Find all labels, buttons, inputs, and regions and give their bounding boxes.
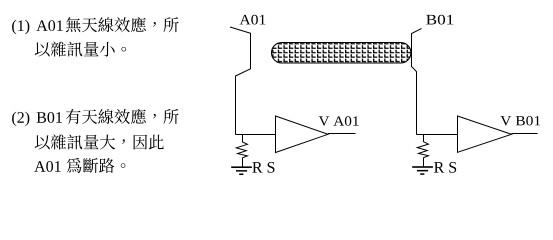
wire left buffer output [328, 133, 356, 135]
op-amp buffer V A01 [276, 116, 329, 153]
note (2) line 2 [35, 134, 164, 149]
note (2) line 1 [12, 109, 179, 126]
wire left horizontal to buffer [236, 134, 276, 136]
note (1) line 2 [35, 41, 126, 56]
label V B01 [500, 116, 540, 126]
label R S (left) [252, 162, 274, 173]
metal line bar with hatch fill [272, 43, 411, 64]
node B01 label [426, 15, 453, 25]
ground (left) [231, 166, 252, 175]
wire from A01 label to left buffer input [230, 27, 251, 135]
note (1) line 1 [12, 17, 179, 34]
wire from B01 label to right buffer input [412, 28, 422, 134]
op-amp buffer V B01 [458, 116, 512, 152]
label R S (right) [434, 162, 456, 173]
wire right horizontal to buffer [417, 134, 458, 136]
ground (right) [412, 166, 433, 175]
node A01 label [240, 15, 266, 25]
resistor R S (right) [417, 135, 428, 167]
resistor R S (left) [236, 135, 247, 167]
note (2) line 3 [34, 158, 125, 173]
wire right buffer output [512, 133, 538, 135]
label V A01 [319, 116, 359, 126]
